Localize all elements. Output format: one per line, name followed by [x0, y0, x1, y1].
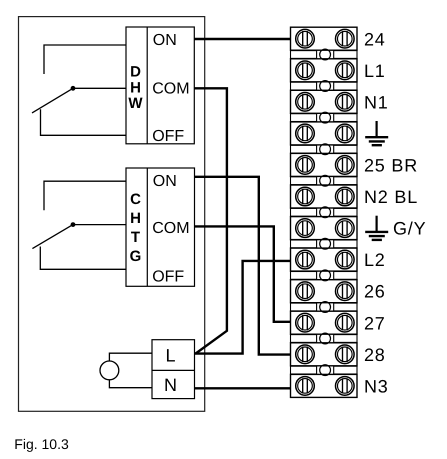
- svg-text:26: 26: [364, 282, 386, 302]
- svg-text:ON: ON: [153, 32, 177, 49]
- terminal block TB5 (25 BR): [291, 153, 358, 176]
- svg-text:25 BR: 25 BR: [364, 156, 418, 176]
- svg-text:27: 27: [364, 313, 386, 333]
- svg-text:Fig. 10.3: Fig. 10.3: [14, 436, 69, 452]
- wire: CHTG COM lead: [73, 224, 126, 226]
- svg-text:L2: L2: [364, 250, 386, 270]
- ground symbol (row 4): [365, 121, 388, 145]
- terminal block TB11 (28): [291, 343, 358, 366]
- wire: CHTG COM to terminal 27: [195, 226, 291, 321]
- switch S2 blade (CHTG): [32, 225, 73, 249]
- wire: pump to N: [109, 380, 152, 388]
- wire: CHTG OFF contact lead: [40, 247, 126, 270]
- svg-text:W: W: [128, 95, 143, 112]
- junction dot S2 pivot: [71, 222, 76, 227]
- DHW column divider: [146, 27, 148, 144]
- svg-text:OFF: OFF: [152, 128, 184, 145]
- svg-text:T: T: [131, 229, 140, 246]
- svg-text:N1: N1: [364, 92, 389, 112]
- wire: N to terminal N3: [195, 387, 291, 389]
- terminal block TB1 (24): [291, 27, 358, 50]
- strip link tabs and mounting hole (between TB2/TB3): [291, 81, 358, 92]
- strip link tabs and mounting hole (between TB11/TB12): [291, 365, 358, 376]
- svg-text:G/Y: G/Y: [393, 219, 426, 239]
- ground symbol (row 7): [365, 216, 388, 240]
- svg-text:COM: COM: [152, 220, 189, 237]
- wire: DHW ON to terminal 24: [194, 38, 290, 40]
- CHTG column divider: [146, 168, 148, 286]
- strip link tabs and mounting hole (between TB6/TB7): [291, 207, 358, 218]
- enclosure box (boiler control housing): [19, 17, 205, 412]
- wire: DHW COM down to L junction: [194, 88, 227, 353]
- switch S1 blade (DHW): [32, 88, 73, 113]
- selector switch DHW (body): [126, 27, 194, 144]
- strip link tabs and mounting hole (between TB1/TB2): [291, 49, 358, 60]
- svg-text:COM: COM: [152, 80, 189, 97]
- L-N divider: [152, 369, 195, 371]
- svg-text:H: H: [130, 210, 141, 227]
- svg-text:H: H: [130, 79, 141, 96]
- terminal block TB3 (N1): [291, 90, 358, 113]
- terminal block TB12 (N3): [291, 374, 358, 397]
- terminal block TB7 (PE2): [291, 217, 358, 240]
- wire: DHW OFF contact lead: [41, 109, 127, 135]
- svg-text:N2 BL: N2 BL: [364, 187, 418, 207]
- strip link tabs and mounting hole (between TB9/TB10): [291, 302, 358, 313]
- svg-text:D: D: [130, 64, 141, 81]
- svg-text:L: L: [165, 346, 175, 366]
- svg-text:24: 24: [364, 29, 386, 49]
- svg-text:C: C: [130, 191, 141, 208]
- L-N terminal box (body): [152, 340, 195, 399]
- terminal block TB10 (27): [291, 311, 358, 334]
- selector switch CHTG (body): [126, 168, 195, 286]
- strip link tabs and mounting hole (between TB7/TB8): [291, 238, 358, 249]
- svg-text:N3: N3: [364, 376, 389, 396]
- strip link tabs and mounting hole (between TB10/TB11): [291, 333, 358, 344]
- svg-text:G: G: [130, 248, 142, 265]
- terminal block TB4 (PE1): [291, 122, 358, 145]
- svg-text:L1: L1: [364, 61, 386, 81]
- wire: DHW ON contact lead: [44, 45, 126, 74]
- terminal block TB8 (L2): [291, 248, 358, 271]
- svg-text:N: N: [164, 375, 177, 395]
- terminal block TB6 (N2 BL): [291, 185, 358, 208]
- junction dot S1 pivot: [71, 86, 76, 91]
- strip link tabs and mounting hole (between TB4/TB5): [291, 144, 358, 155]
- strip link tabs and mounting hole (between TB5/TB6): [291, 175, 358, 186]
- wire: pump to L: [109, 353, 152, 361]
- terminal block TB2 (L1): [291, 59, 358, 82]
- wire: CHTG ON contact lead: [44, 181, 126, 210]
- wire: L junction to terminal L2: [195, 261, 291, 354]
- pump M1 (circle symbol): [100, 361, 119, 380]
- svg-text:OFF: OFF: [152, 268, 184, 285]
- wire: DHW COM lead: [73, 87, 126, 89]
- wire: CHTG ON to terminal 28: [195, 177, 291, 355]
- svg-text:ON: ON: [153, 173, 177, 190]
- strip link tabs and mounting hole (between TB8/TB9): [291, 270, 358, 281]
- terminal block TB9 (26): [291, 280, 358, 303]
- strip link tabs and mounting hole (between TB3/TB4): [291, 112, 358, 123]
- svg-text:28: 28: [364, 345, 386, 365]
